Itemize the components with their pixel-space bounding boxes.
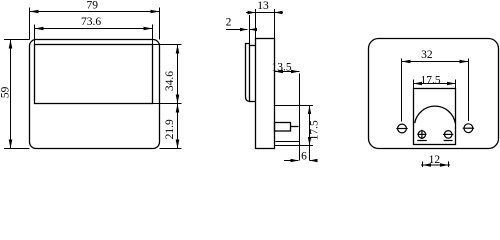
arrows dim 17.5 side [308,106,311,115]
dim 79 line [30,11,160,13]
side view terminal block [275,123,291,132]
rear view outer plate [369,39,499,149]
dim 12 extension ticks [423,162,449,168]
rear minus terminal screw [444,131,452,139]
svg-text:6: 6 [301,150,307,162]
dim 73.6 extension lines [35,25,153,45]
dim 79 extension lines [30,8,160,40]
dim 13 line [246,12,283,14]
rear left mounting stud [398,124,407,133]
front view window 73.6x34.6 [35,45,153,104]
rear plus terminal screw [418,131,425,138]
arrows dim 17.5 rear [414,82,423,85]
arrows dim 73.6 [35,27,44,31]
dim 13 extension lines [256,9,275,39]
dim 34.6 extension lines [153,45,182,104]
svg-text:13.5: 13.5 [271,61,291,73]
side view ext line lower a [276,141,300,143]
arrows dim 32 [402,60,411,64]
side view case body [256,39,275,149]
svg-text:32: 32 [421,49,433,61]
dim 73.6 line [35,28,153,30]
dim 17.5 rear line [414,83,456,85]
arrows dim 13 outside [248,11,256,14]
terminal underlines [417,140,452,142]
svg-text:34.6: 34.6 [164,71,176,91]
dim 17.5 side line [309,106,311,161]
side view ext line lower b [275,145,314,147]
svg-text:59: 59 [0,86,12,98]
dim 32 line [402,61,469,63]
dim 34.6 line [177,45,179,104]
svg-text:17.5: 17.5 [421,74,441,86]
dim 21.9 extension line [160,148,182,150]
dim 32 extension lines [402,59,469,122]
arrows dim 13.5 [275,70,284,73]
dim 6 line [284,160,317,162]
side view step top [250,45,256,47]
rear right mounting stud [464,124,473,133]
arrows dim 34.6 [176,45,180,54]
svg-text:2: 2 [226,17,232,29]
arrows dim 12 [423,163,432,166]
dim 2 line [226,29,257,31]
side view step bottom [250,101,256,103]
svg-text:17.5: 17.5 [309,120,321,140]
dim 13.5 / 6 shared extension [299,74,301,161]
dim 2 extension line [249,15,251,44]
svg-text:12: 12 [429,154,441,166]
svg-text:79: 79 [86,0,98,12]
arrows dim 59 [9,40,13,49]
dim 59 line [10,40,12,149]
rear view box edge extensions [414,80,456,89]
arrows dim 6 outside [291,159,299,162]
arrows dim 2 [240,28,248,31]
dim 21.9 line [177,104,179,149]
svg-text:73.6: 73.6 [81,16,101,28]
arrows dim 79 [30,10,39,14]
side view terminal screw tip [291,126,299,128]
svg-text:13: 13 [257,0,269,12]
dim 59 extension lines [4,40,30,149]
rear view movement dome [415,106,456,123]
dim 13.5 line [275,71,300,73]
side view window cover (2mm) [246,44,250,102]
dim 12 line [421,164,450,166]
front view outer bezel 79x59 [30,40,160,149]
svg-text:21.9: 21.9 [164,119,176,139]
arrows dim 21.9 [176,104,180,113]
side view ext line upper [275,105,314,107]
rear view terminal box [414,89,456,145]
